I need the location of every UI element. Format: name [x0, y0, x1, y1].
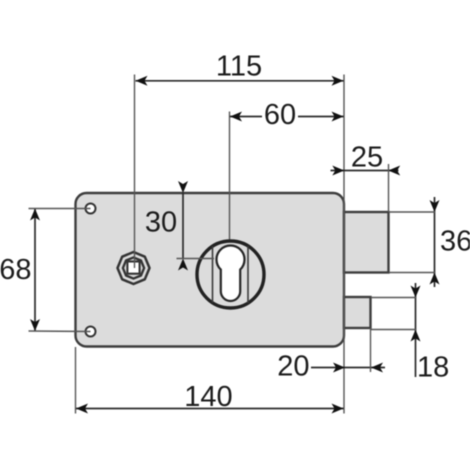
deadbolt (lower): [344, 297, 371, 328]
dimension 68: top arrow: [30, 209, 40, 221]
svg-text:18: 18: [417, 352, 449, 384]
wire: extension line right of 25 dim: [388, 164, 390, 212]
cylinder rose circle: [197, 241, 264, 308]
svg-text:140: 140: [184, 381, 232, 413]
svg-text:25: 25: [351, 142, 383, 174]
wire: extension line deadbolt top: [371, 297, 417, 299]
wire: extension line latch bottom: [389, 272, 436, 274]
dimension 60: line (broken for label): [230, 116, 262, 118]
svg-text:30: 30: [145, 207, 177, 239]
dimension 25: left arrow (outside, pointing right): [332, 166, 344, 176]
wire: extension line from 60 dim down to cylinder: [229, 112, 231, 243]
dimension 25: right arrow (outside, pointing left): [388, 166, 400, 176]
dimension 36: vertical line: [434, 197, 436, 287]
spindle hole outer octagon: [118, 252, 150, 284]
svg-text:115: 115: [216, 51, 262, 83]
dimension 20: right arrow (outside, pointing left): [371, 363, 383, 373]
dimension 115: line: [136, 80, 344, 82]
latch bolt (upper): [344, 212, 389, 273]
wire: extension line deadbolt bottom: [371, 329, 417, 331]
wire: extension line to top screw hole: [29, 208, 91, 210]
dimension 30: top arrow (above, pointing down): [178, 181, 188, 193]
dimension 30: vertical line: [182, 193, 184, 259]
dimension 68: vertical line: [34, 209, 36, 332]
dimension 115: right arrow: [332, 76, 344, 86]
wire: extension line deadbolt right: [370, 328, 372, 372]
wire: extension line from 115 dim down to spindle center: [134, 75, 136, 269]
dimension 68: bottom arrow: [30, 319, 40, 331]
dimension 36: bottom arrow (below, pointing up): [430, 273, 440, 285]
dimension 60: right arrow: [332, 112, 344, 122]
dimension 140: line: [76, 408, 344, 410]
dimension 20: line: [311, 367, 385, 369]
svg-text:60: 60: [264, 99, 296, 131]
spindle hole inner octagon: [123, 257, 144, 278]
euro profile keyhole: [217, 246, 245, 301]
wire: extension line to bottom screw hole: [29, 330, 91, 333]
dimension 36: top arrow (above, pointing down): [430, 200, 440, 212]
cylinder chord left: [212, 246, 214, 302]
dimension 140: right arrow: [332, 404, 344, 414]
dimension 20: left arrow (outside, pointing right): [333, 363, 345, 373]
wire: reference line at keyhole center: [177, 258, 215, 260]
screw hole bottom-left: [86, 327, 96, 337]
wire: extension line latch top: [389, 211, 436, 213]
svg-text:68: 68: [0, 254, 32, 286]
lock body plate: [76, 193, 345, 347]
dimension 18: top arrow (above, pointing down): [411, 286, 421, 298]
dimension 30: bottom arrow (below, pointing up): [178, 259, 188, 271]
svg-text:36: 36: [440, 226, 470, 258]
screw hole top-left: [86, 204, 96, 214]
svg-text:20: 20: [277, 351, 309, 383]
dimension 18: bottom arrow (below, pointing up): [411, 330, 421, 342]
dimension 115: left arrow: [136, 76, 148, 86]
dimension 60: left arrow: [230, 112, 242, 122]
dimension 140: left arrow: [76, 404, 88, 414]
dimension 25: line: [331, 170, 399, 172]
wire: master vertical extension line at x=344 (right reference): [343, 75, 345, 414]
wire: extension line body left: [75, 347, 77, 414]
cylinder chord right: [247, 246, 249, 303]
spindle square: [127, 262, 139, 274]
dimension 18: vertical line: [415, 283, 417, 377]
